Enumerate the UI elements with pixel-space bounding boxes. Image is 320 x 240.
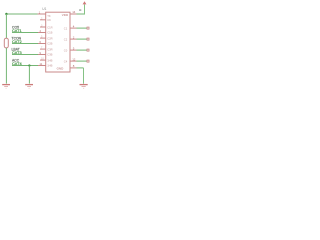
pin 5r <box>70 49 77 51</box>
pin 5 <box>40 37 46 39</box>
wire <box>77 27 88 29</box>
svg-text:C1R: C1R <box>47 26 52 30</box>
power VDD <box>83 1 87 4</box>
svg-text:1HB: 1HB <box>47 59 52 63</box>
wire <box>84 5 86 15</box>
wire <box>77 67 84 69</box>
pin 10 <box>40 59 46 61</box>
ground <box>2 85 10 89</box>
pin 1 <box>38 13 46 15</box>
node VDD dot <box>79 9 81 11</box>
svg-text:C1B: C1B <box>47 31 52 35</box>
wire <box>12 54 38 56</box>
svg-text:TK: TK <box>47 14 51 18</box>
pin 4 <box>38 32 46 34</box>
pin 4r <box>70 27 77 29</box>
wire <box>12 65 38 67</box>
ground <box>25 85 33 89</box>
svg-text:C3B: C3B <box>47 53 52 57</box>
wire <box>12 43 38 45</box>
pin 14 <box>70 13 77 15</box>
pin 6 <box>38 43 46 45</box>
node end1 <box>87 27 89 29</box>
svg-text:GND: GND <box>57 66 65 70</box>
svg-text:1HB: 1HB <box>47 64 52 68</box>
pin 11 <box>38 65 46 67</box>
wire <box>77 13 86 15</box>
wire <box>83 68 85 84</box>
node end4 <box>87 60 89 62</box>
wire <box>5 14 7 39</box>
wire <box>12 32 38 34</box>
junction <box>5 13 7 15</box>
op-amp U1 <box>46 12 70 72</box>
wire <box>77 49 88 51</box>
node end3 <box>87 49 89 51</box>
wire <box>77 38 88 40</box>
svg-text:C4: C4 <box>64 60 68 64</box>
pin 2 <box>40 19 46 21</box>
svg-text:U1: U1 <box>42 7 46 11</box>
pin 8 GND <box>70 67 77 69</box>
svg-text:C1: C1 <box>64 27 68 31</box>
pin 12r <box>70 60 77 62</box>
pin 2r <box>70 38 77 40</box>
svg-text:14: 14 <box>72 10 76 14</box>
svg-text:C2: C2 <box>64 38 68 42</box>
ground <box>80 85 88 89</box>
resistor R1 <box>4 38 8 48</box>
svg-text:C2B: C2B <box>47 42 52 46</box>
wire <box>5 48 7 84</box>
wire <box>28 66 30 84</box>
wire <box>6 13 38 15</box>
junction <box>28 64 30 66</box>
pin 9 <box>38 54 46 56</box>
pin 3 <box>40 26 46 28</box>
svg-text:CK: CK <box>47 18 51 22</box>
svg-text:12: 12 <box>72 57 76 61</box>
svg-text:VDD: VDD <box>62 13 69 17</box>
node end2 <box>87 38 89 40</box>
svg-text:C2R: C2R <box>47 37 52 41</box>
svg-text:11: 11 <box>39 62 42 66</box>
pin 7 <box>40 48 46 50</box>
svg-text:C3R: C3R <box>47 48 52 52</box>
svg-text:C0: C0 <box>64 49 68 53</box>
wire <box>77 60 88 62</box>
